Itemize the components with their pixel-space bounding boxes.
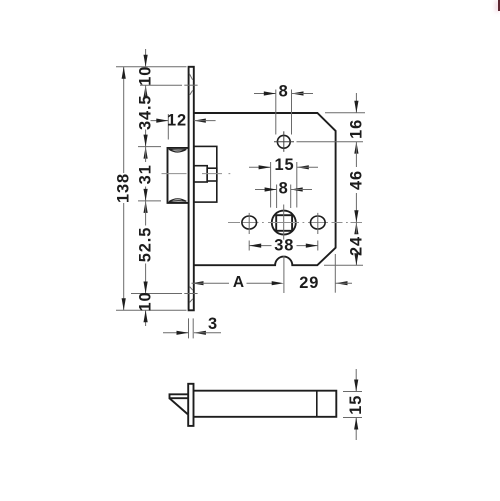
body right edge lower extension line — [334, 254, 336, 293]
dimension 3 left tail/arrow — [163, 332, 189, 334]
dimension 31 arrows — [144, 147, 148, 159]
dimension 16 outside arrow above — [355, 93, 357, 113]
spindle square hole — [276, 215, 292, 231]
red corner mark — [498, 0, 500, 11]
dimension 34.5 arrow down — [144, 135, 148, 147]
extension line faceplate top — [116, 66, 187, 68]
svg-text:46: 46 — [348, 170, 366, 190]
latch bolt center line — [162, 173, 231, 175]
dimension 138 text — [115, 173, 133, 203]
dimension 38 text — [274, 237, 295, 255]
svg-text:10: 10 — [137, 291, 155, 311]
dimension 16 text — [348, 119, 366, 139]
latch bolt bottom curvature arc — [169, 199, 186, 202]
faceplate (front view) — [189, 67, 194, 310]
dimension 38 line + arrows — [249, 245, 271, 247]
latch bolt body (top view) — [194, 391, 337, 417]
latch bolt (front view) — [168, 148, 189, 203]
dimension 12 right arrow and tail — [194, 119, 206, 123]
dimension 15 (bolt height) extension lines — [343, 391, 362, 393]
dimension 8 mid text — [278, 179, 291, 197]
extension lines — [248, 241, 250, 251]
dimension 15 outside arrow above — [355, 369, 357, 392]
right fixing hole vertical tick — [317, 213, 319, 234]
latch head flat strip — [170, 394, 189, 398]
svg-text:31: 31 — [137, 164, 155, 184]
extension line latch top — [138, 146, 161, 148]
dimension 8 top right arrow/tail — [292, 91, 304, 95]
hole row center line — [228, 222, 362, 224]
svg-text:8: 8 — [279, 82, 289, 100]
lock case body outline — [194, 113, 336, 265]
follower housing box — [194, 146, 217, 202]
dimension 12 left tail and arrow — [151, 120, 169, 122]
extension line bottom screw center — [131, 293, 182, 295]
bottom screw hole countersink slashes — [189, 286, 193, 303]
svg-text:8: 8 — [279, 179, 289, 197]
spindle vertical center line — [283, 205, 285, 242]
svg-text:A: A — [233, 274, 244, 291]
dimension 24 text — [348, 236, 366, 256]
dimension A arrows and line — [192, 281, 204, 285]
bottom screw hole center tick — [184, 293, 197, 295]
svg-text:24: 24 — [348, 236, 366, 256]
dimension 10 top text — [137, 66, 155, 86]
top hole — [277, 135, 290, 148]
faceplate (section) — [188, 384, 193, 426]
svg-text:52.5: 52.5 — [137, 227, 155, 263]
dimension 10 top: outside arrow above — [145, 49, 147, 67]
dimension 46 arrows — [354, 142, 358, 154]
left fixing hole — [242, 216, 257, 229]
dimension 15 right arrow/tail — [297, 165, 309, 169]
dimension 138 arrows — [122, 67, 126, 79]
dimension 24 arrows — [354, 222, 358, 234]
extension lines — [188, 318, 190, 338]
svg-text:15: 15 — [347, 395, 365, 415]
svg-text:29: 29 — [299, 274, 319, 292]
dimension 15 outside arrow below — [355, 418, 357, 441]
svg-text:16: 16 — [348, 119, 366, 139]
left fixing hole vertical tick — [248, 213, 250, 234]
dimension 8 top left tail/arrow — [254, 93, 276, 95]
svg-text:34.5: 34.5 — [137, 95, 155, 131]
top screw hole center tick — [184, 84, 197, 86]
top hole horizontal center line / 16-46 extension — [274, 141, 294, 143]
dimension 8 mid left tail/arrow — [255, 189, 277, 191]
latch head bevel edge — [170, 398, 188, 414]
latch tail box — [194, 166, 207, 182]
dimension 52.5 arrows — [144, 201, 148, 213]
notch center extension line — [283, 256, 285, 294]
extension line top screw center — [140, 84, 182, 86]
extension line body bottom — [324, 264, 363, 266]
dimension 10 bottom outside arrow below — [145, 310, 147, 326]
extension lines — [275, 90, 277, 135]
dimension 15 text — [274, 156, 295, 174]
dimension 34.5 text — [137, 95, 155, 131]
top hole vertical center line — [283, 131, 285, 152]
latch head bevel bottom tick — [187, 413, 189, 415]
dimension 46 text — [348, 170, 366, 190]
dimension 138 line — [123, 67, 125, 173]
dimension 10 bottom text — [137, 291, 155, 311]
latch tail tab — [207, 168, 217, 181]
extension line latch bottom — [138, 200, 161, 202]
dimension 29 outside arrow right — [336, 281, 348, 285]
dimension 3 right arrow/tail — [194, 331, 206, 335]
extension lines — [276, 185, 278, 209]
dimension 8 mid right arrow/tail — [291, 187, 303, 191]
svg-text:15: 15 — [274, 156, 294, 174]
extension line faceplate bottom — [116, 309, 187, 311]
extension line latch front face — [167, 114, 169, 140]
svg-text:38: 38 — [274, 237, 294, 255]
svg-text:3: 3 — [208, 315, 218, 333]
extension lines — [270, 162, 272, 208]
dimension 31 text — [137, 164, 155, 184]
extension line body top — [325, 112, 365, 114]
svg-text:138: 138 — [115, 173, 133, 203]
svg-text:10: 10 — [137, 66, 155, 86]
right fixing hole — [311, 216, 326, 229]
dimension 15 text — [347, 395, 365, 415]
svg-text:12: 12 — [167, 112, 187, 130]
dimension 8 top text — [278, 82, 291, 100]
dimension 34.5: arrow up at screw line — [144, 85, 148, 97]
top screw hole countersink slashes — [189, 73, 192, 94]
dimension 15 left tail/arrow — [249, 166, 271, 168]
latch bolt end cap line — [316, 391, 318, 417]
spindle hole circle — [272, 211, 296, 235]
latch bolt top curvature arc — [169, 149, 186, 152]
dimension 52.5 text — [137, 227, 155, 263]
